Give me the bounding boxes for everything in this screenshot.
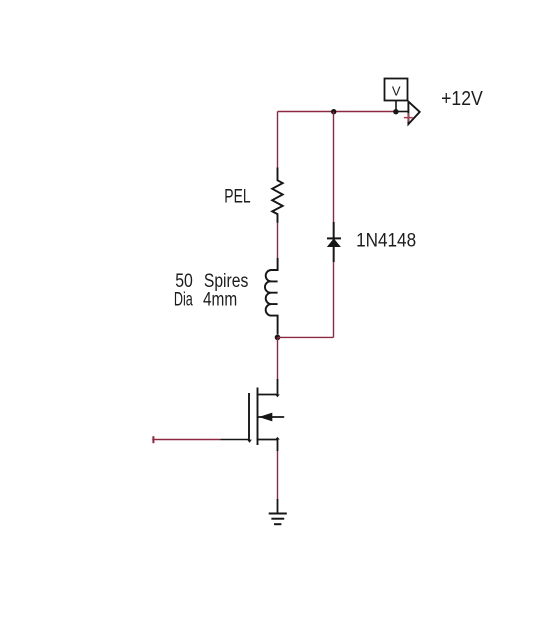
wire junction to diode bottom horizontal red xyxy=(278,336,334,338)
wire resistor-to-inductor red xyxy=(277,223,279,259)
wire left branch vertical red (top) xyxy=(277,112,279,168)
port connector +12V chevron xyxy=(408,102,419,125)
ground symbol bar 1 xyxy=(269,513,287,515)
gate input pin red tick xyxy=(152,436,154,443)
svg-text:V: V xyxy=(392,84,401,98)
ground symbol bar 2 xyxy=(271,518,284,520)
wire drain black xyxy=(277,379,279,395)
pin tick drain corner xyxy=(275,395,280,398)
wire junction to drain red xyxy=(277,337,279,379)
resistor PEL xyxy=(272,168,283,223)
wire source black to ground xyxy=(277,499,279,514)
port pin red cross xyxy=(404,113,413,122)
wire voltmeter probe drop xyxy=(395,100,397,112)
wire source red xyxy=(277,451,279,499)
svg-text:+12V: +12V xyxy=(441,87,483,110)
diode D1 1N4148 body leads black xyxy=(333,222,335,262)
voltmeter V1 box xyxy=(385,79,408,101)
ground symbol bar 3 xyxy=(274,523,281,525)
mosfet Q1 drain stub xyxy=(257,394,278,396)
wire diode branch vertical red xyxy=(333,112,335,338)
wire top horizontal +12V rail xyxy=(278,111,396,113)
mosfet Q1 source stub xyxy=(257,439,278,441)
svg-text:1N4148: 1N4148 xyxy=(356,229,416,251)
svg-text:4mm: 4mm xyxy=(203,289,237,310)
node junction dot at probe tap xyxy=(393,109,398,114)
mosfet Q1 bulk arrowhead xyxy=(259,413,273,422)
svg-text:Dia: Dia xyxy=(174,289,193,310)
node junction dot inductor/diode/drain xyxy=(275,335,281,341)
wire probe-to-port black segment xyxy=(396,111,409,113)
diode D1 cathode bar xyxy=(327,237,341,239)
wire source black upper xyxy=(277,440,279,452)
inductor L1 (50 spires) xyxy=(265,258,278,335)
wire gate red segment xyxy=(152,439,220,441)
mosfet Q1 bulk arrow line xyxy=(258,416,285,418)
node junction dot at diode top xyxy=(331,109,336,114)
mosfet Q1 gate bar xyxy=(248,393,250,440)
svg-text:PEL: PEL xyxy=(224,186,250,207)
mosfet Q1 channel bar xyxy=(257,388,259,446)
diode D1 anode triangle xyxy=(328,239,340,246)
pin tick source corner xyxy=(275,437,280,440)
wire gate black segment xyxy=(221,439,250,441)
pin tick gate end xyxy=(247,440,252,443)
